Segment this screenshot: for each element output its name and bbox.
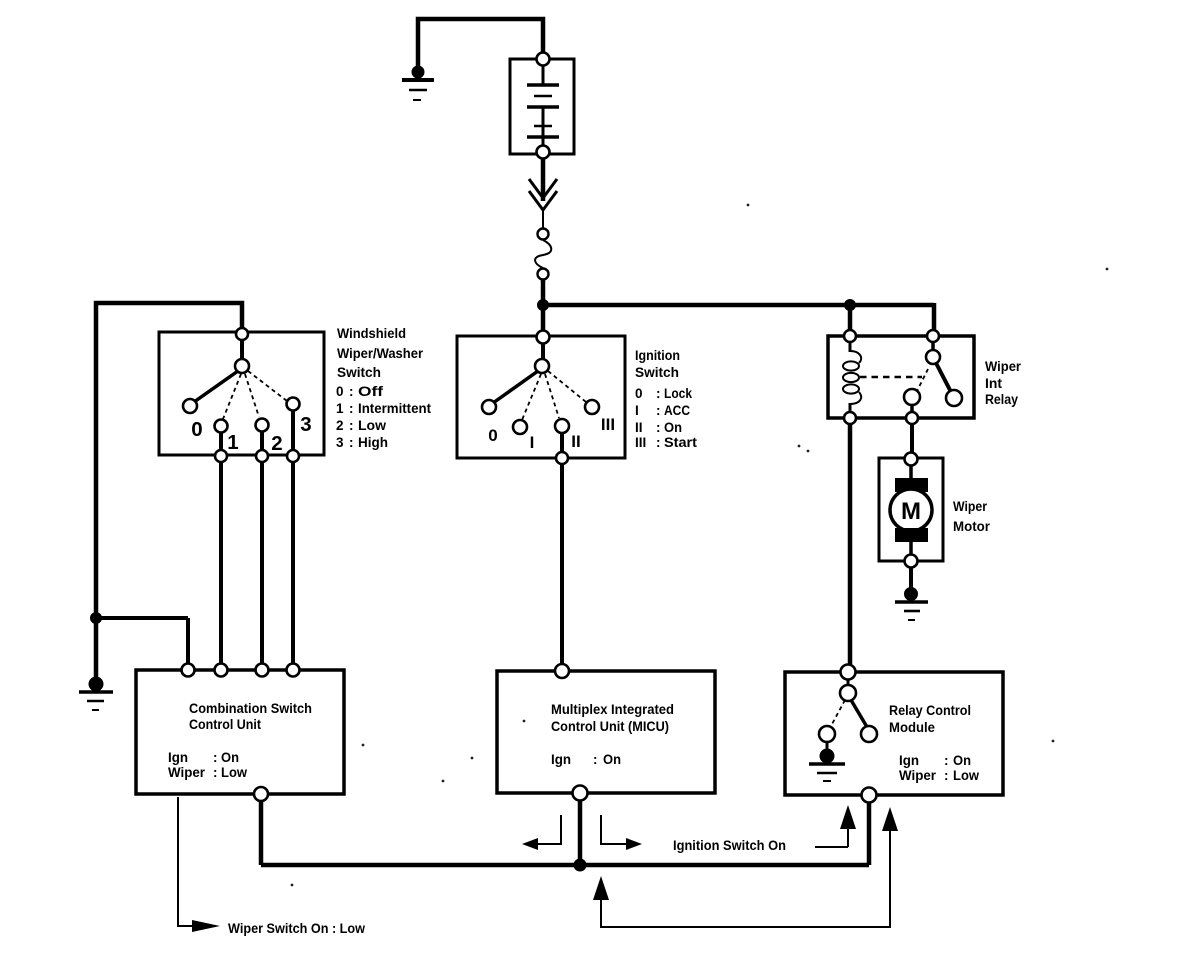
svg-text::: : [349,384,354,399]
ground (module internal) [809,749,845,781]
wire contact to ground [826,742,829,750]
wire combination to bus [259,800,264,865]
svg-text:3: 3 [336,435,344,450]
svg-text::: : [656,403,661,418]
svg-text:0: 0 [191,418,202,441]
svg-text::: : [944,753,949,768]
svg-text:Start: Start [664,435,698,450]
svg-text::: : [944,768,949,783]
svg-text:Multiplex Integrated: Multiplex Integrated [551,702,674,717]
annotation loop bus to module [593,807,898,927]
wire MICU to bus [578,800,583,865]
label MICU [551,702,674,767]
svg-text:On: On [953,753,971,768]
contact 0 [183,399,197,413]
fuse [535,229,551,280]
svg-text:M: M [901,498,921,525]
wire module to bus [867,802,872,865]
svg-text:0: 0 [336,384,344,399]
ground (left) [79,677,113,710]
pin top 1 [182,664,195,677]
wire to relay coil [848,305,853,338]
switch arm dashed to 2 [245,374,259,417]
scan specks [291,204,1109,887]
pin 1 bottom [215,450,227,462]
svg-text:Switch: Switch [337,365,381,380]
pin bottom [862,788,877,803]
relay contact open [946,390,962,406]
ground (motor) [895,588,928,621]
svg-text:I: I [635,403,639,418]
svg-text::: : [213,750,218,765]
svg-text:Switch: Switch [635,365,679,380]
svg-text::: : [213,765,218,780]
annotation wiper switch on low [178,797,365,936]
label ignition switch [635,348,698,450]
relay switch arm [936,363,951,392]
svg-text:0: 0 [635,386,643,401]
wire bottom bus [261,863,869,868]
svg-text:Motor: Motor [953,519,991,534]
svg-text:2: 2 [271,432,282,455]
relay contact to motor [904,389,920,405]
ground (battery negative) [402,66,434,100]
svg-text:Wiper Switch On : Low: Wiper Switch On : Low [228,921,365,936]
relay pin top left [844,330,856,342]
ignition switch SW2 [457,336,625,458]
svg-text::: : [656,435,661,450]
motor pin bottom [905,555,918,568]
wire contact II down to MICU [560,433,564,673]
svg-text::: : [349,435,354,450]
annotation arrow into module [815,805,856,847]
relay control module U2 [785,672,1003,795]
wire wiper switch feed [96,303,242,684]
wire pole stem [541,343,545,364]
annotation arrow left from MICU [522,815,561,850]
wire contact2 down [260,431,264,672]
pin top [555,664,569,678]
svg-text:Relay Control: Relay Control [889,703,971,718]
pin top 4 [287,664,300,677]
svg-text:Low: Low [358,418,387,433]
wire power bus [543,303,934,338]
label wiper motor [953,499,991,534]
relay switch pivot [926,350,940,364]
relay pin top right [927,330,939,342]
junction battery node [538,300,549,311]
wire motor to ground [909,567,913,591]
pin bottom [254,787,268,801]
contact II on [555,419,569,433]
relay pin bottom mid [906,412,918,424]
wire contact stem [910,405,914,413]
pin top 3 [256,664,269,677]
windshield wiper/washer switch SW1 [159,332,324,455]
switch arm dashed to 3 [248,371,287,401]
junction ground node [91,613,102,624]
module contact left [819,726,835,742]
module switch arm dashed [831,700,845,726]
contact 0 lock [482,400,496,414]
wire from battery [541,158,546,201]
svg-text:Wiper/Washer: Wiper/Washer [337,346,424,361]
svg-text:Ign: Ign [551,752,571,767]
pin common top [236,328,248,340]
switch arm dashed to 1 [223,374,241,419]
svg-text:Combination Switch: Combination Switch [189,701,312,716]
svg-text:Int: Int [985,376,1003,391]
svg-text::: : [656,420,661,435]
pin common top [537,331,550,344]
svg-text:0: 0 [488,426,497,445]
wire battery to ground [418,19,543,69]
svg-text:Ignition Switch On: Ignition Switch On [673,838,786,853]
switch pole [235,359,249,373]
wire relay switch stem [931,342,935,351]
pin top 2 [215,664,228,677]
svg-text:Ign: Ign [899,753,919,768]
wire contact3 down [291,410,295,672]
svg-text:High: High [358,435,388,450]
contact 1 [215,420,228,433]
svg-text:Off: Off [358,384,384,399]
annotation arrow right from MICU [601,815,642,850]
module switch pole [840,685,856,701]
svg-text:Wiper: Wiper [168,765,206,780]
svg-text::: : [349,418,354,433]
wire to combination unit [96,618,188,672]
combination switch control unit U1 [136,670,344,794]
svg-text:III: III [601,415,615,434]
battery pin top [537,53,550,66]
svg-text:Control Unit: Control Unit [189,717,261,732]
wiper int relay K1 [828,336,974,418]
switch pole [535,359,549,373]
svg-text:On: On [603,752,621,767]
label relay control module [889,703,979,783]
relay coil [843,342,861,412]
pin II bottom [556,452,568,464]
svg-text:Low: Low [221,765,247,780]
svg-text:On: On [664,420,682,435]
switch arm dashed to I [522,374,541,420]
motor pin top [905,453,918,466]
switch arm solid to 0 [493,371,538,403]
svg-text:On: On [221,750,239,765]
label combination switch control unit [168,701,312,780]
relay actuating link dashed [860,376,922,379]
module switch arm solid [851,700,867,727]
pin 2 bottom [256,450,268,462]
svg-text:1: 1 [336,401,344,416]
multiplex integrated control unit MICU [497,671,715,793]
relay switch arm dashed alt [916,369,928,393]
junction bus node [574,859,586,871]
contact III start [585,400,599,414]
svg-text:I: I [530,433,535,452]
svg-text:Ign: Ign [168,750,188,765]
wire contact1 down [219,432,223,672]
svg-text::: : [656,386,661,401]
svg-text:ACC: ACC [664,403,690,418]
svg-text::: : [349,401,354,416]
switch arm dashed to II [545,374,559,418]
wiper motor M1 [879,458,943,561]
svg-text:1: 1 [227,431,238,454]
pin 3 bottom [287,450,299,462]
wire main feed [541,279,546,338]
svg-text:II: II [571,432,580,451]
wire pole stem [847,679,850,685]
svg-text:Intermittent: Intermittent [358,401,431,416]
svg-text:Wiper: Wiper [953,499,988,514]
pin top [841,665,856,680]
label windshield wiper/washer switch [336,326,431,450]
svg-text:III: III [635,435,646,450]
wire pole stem [240,340,244,364]
contact I acc [513,420,527,434]
battery [510,59,574,154]
svg-text:II: II [635,420,643,435]
svg-text:Windshield: Windshield [337,326,406,341]
switch arm solid to 0 [194,371,238,402]
svg-text:Wiper: Wiper [899,768,937,783]
contact 2 [256,419,269,432]
pin bottom [573,786,588,801]
svg-text::: : [593,752,598,767]
svg-text:Ignition: Ignition [635,348,680,363]
svg-text:Wiper: Wiper [985,359,1022,374]
junction relay feed [845,300,856,311]
svg-text:Low: Low [953,768,979,783]
connector chevron arrows [529,179,557,228]
svg-text:Relay: Relay [985,392,1018,407]
module contact right [861,726,877,742]
relay pin bottom left [844,412,856,424]
svg-text:2: 2 [336,418,344,433]
wire relay to motor [910,424,914,460]
contact 3 [287,398,300,411]
svg-text:3: 3 [300,413,311,436]
svg-text:Lock: Lock [664,386,692,401]
wire relay to relay control module [848,424,853,674]
svg-text:Control Unit (MICU): Control Unit (MICU) [551,719,669,734]
label wiper int relay [985,359,1022,407]
svg-text:Module: Module [889,720,935,735]
switch arm dashed to III [548,371,586,402]
battery pin bottom [537,146,550,159]
